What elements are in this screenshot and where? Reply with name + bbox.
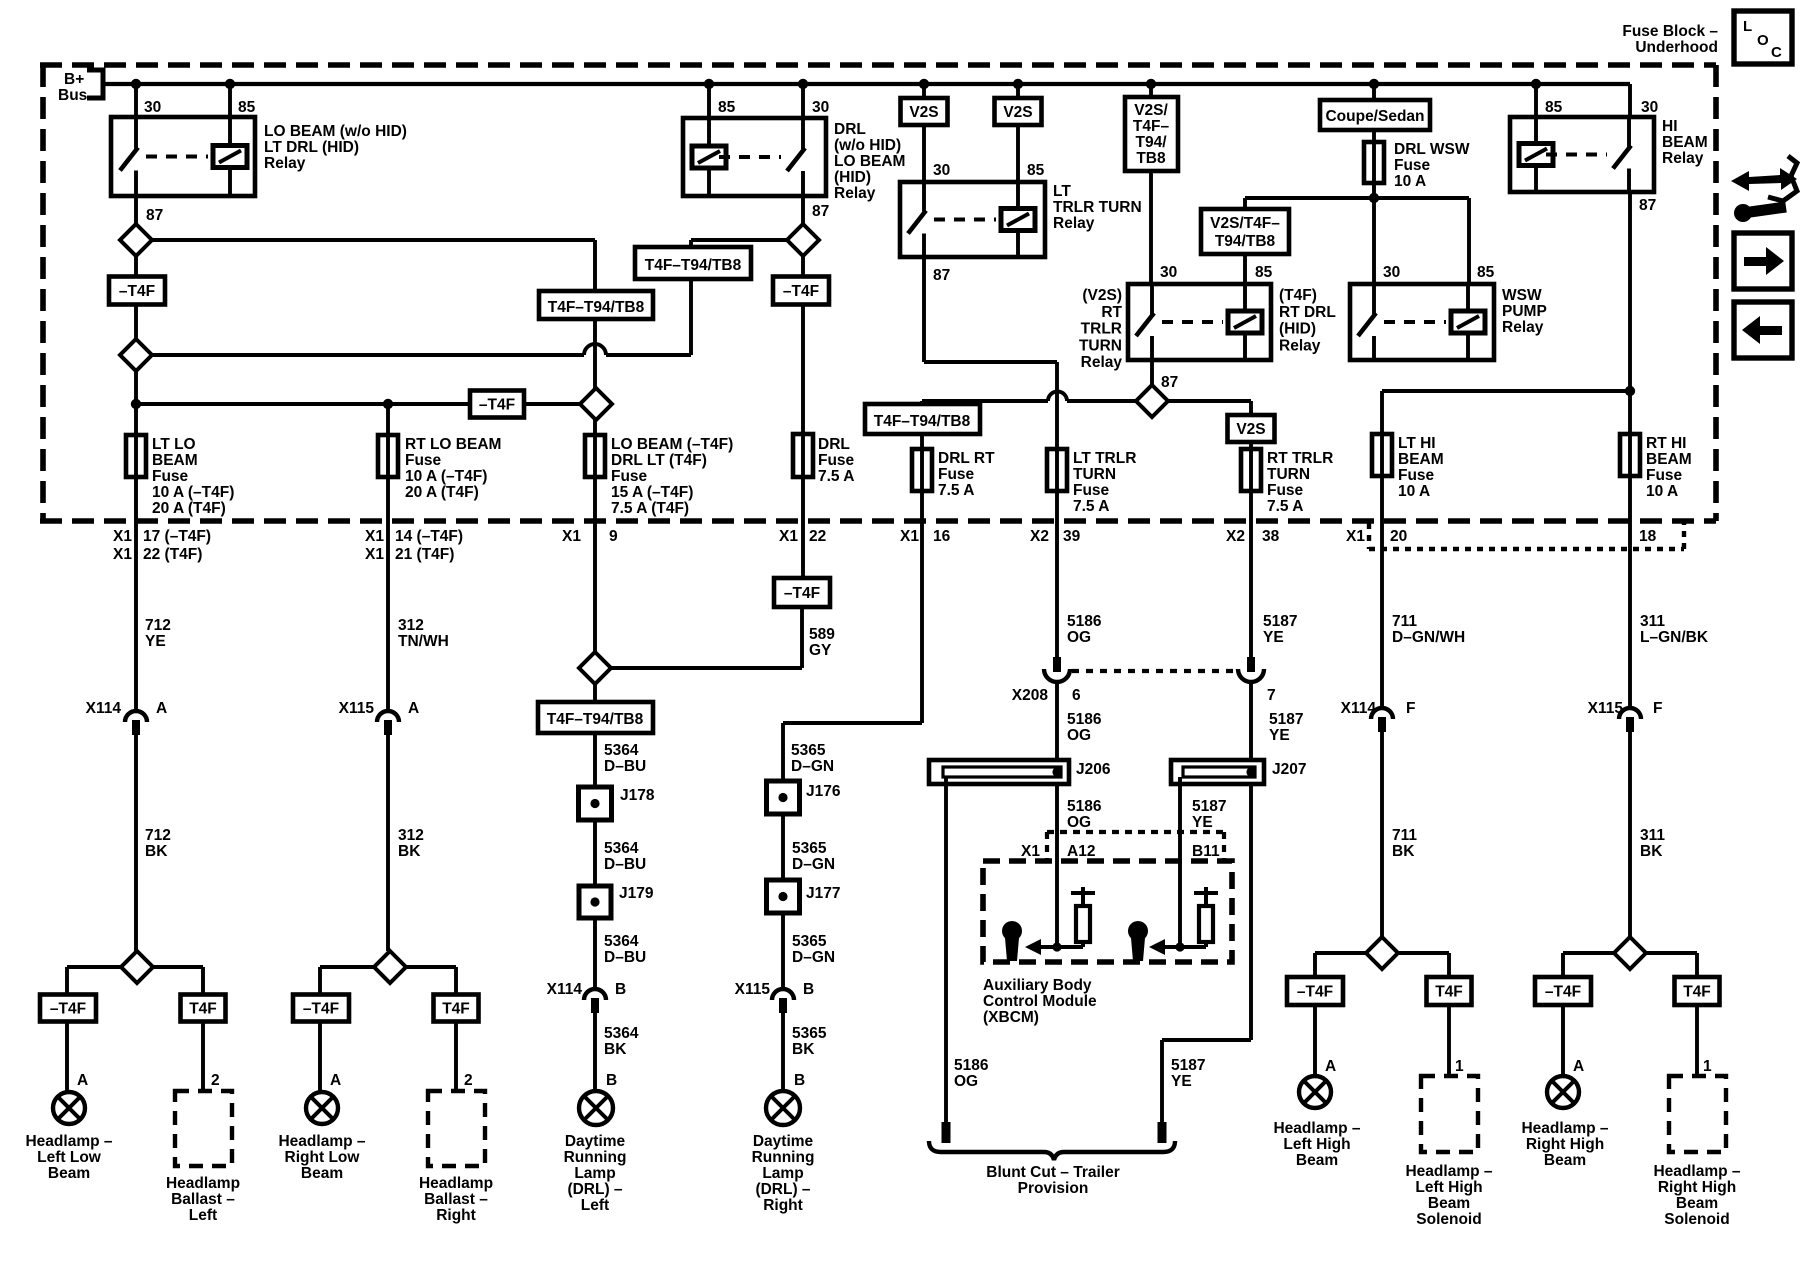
svg-text:Daytime: Daytime bbox=[753, 1133, 814, 1150]
svg-text:30: 30 bbox=[933, 162, 950, 179]
svg-text:30: 30 bbox=[812, 99, 829, 116]
svg-text:T4F–T94/TB8: T4F–T94/TB8 bbox=[548, 299, 645, 316]
wire 2-line box to K4 pin 85 bbox=[1243, 254, 1247, 284]
svg-text:Left: Left bbox=[581, 1197, 609, 1214]
svg-text:–T4F: –T4F bbox=[784, 585, 820, 602]
svg-text:311: 311 bbox=[1640, 613, 1665, 630]
wire fuse to connector X115-F bbox=[1628, 476, 1632, 707]
svg-text:2: 2 bbox=[464, 1072, 473, 1089]
K6 pin label 30 bbox=[1641, 99, 1658, 116]
B+ bus bracket bbox=[87, 70, 103, 98]
wire X208-6 to splice pack J206 bbox=[1055, 684, 1059, 760]
svg-text:–T4F: –T4F bbox=[119, 283, 155, 300]
svg-text:T4F–T94/TB8: T4F–T94/TB8 bbox=[874, 413, 971, 430]
junction XBCM left (1057,947) bbox=[1052, 942, 1061, 951]
svg-text:(DRL) –: (DRL) – bbox=[755, 1181, 810, 1198]
svg-text:5186: 5186 bbox=[1067, 613, 1102, 630]
svg-text:X1: X1 bbox=[900, 528, 919, 545]
svg-text:L: L bbox=[1743, 18, 1752, 35]
svg-text:Fuse: Fuse bbox=[938, 466, 975, 483]
wire label 712 BK bbox=[145, 827, 171, 860]
connector X115 pin F bbox=[1619, 708, 1641, 732]
RT TRLR TURN fuse label bbox=[1267, 450, 1333, 515]
headlamp right high beam solenoid (dashed box) bbox=[1669, 1076, 1726, 1152]
svg-text:PUMP: PUMP bbox=[1502, 303, 1547, 320]
wire S1 to -T4F box bbox=[134, 256, 138, 277]
wire K4 87 to splice diamond S3 bbox=[1150, 360, 1154, 385]
col7 pin labels X2 38 bbox=[1226, 528, 1280, 545]
wire label 5186 OG (2) bbox=[1067, 711, 1102, 744]
wire label 5364 D-BU (2) bbox=[604, 840, 646, 873]
svg-text:X208: X208 bbox=[1012, 687, 1049, 704]
wire label 5186 OG (3) bbox=[1067, 798, 1102, 831]
wire label 5365 D-GN (2) bbox=[792, 840, 835, 873]
B+ bus wire bbox=[103, 82, 1630, 86]
col1 left branch wire bbox=[67, 967, 121, 995]
wire bus to K6 pin 85 bbox=[1534, 84, 1538, 117]
svg-text:Control Module: Control Module bbox=[983, 993, 1097, 1010]
svg-text:Beam: Beam bbox=[1296, 1152, 1338, 1169]
pin label B col3 bbox=[606, 1072, 617, 1089]
wire bus to K1 pin 30 bbox=[134, 84, 138, 117]
K1 relay name bbox=[264, 123, 407, 172]
col4 pin labels X1 22 bbox=[779, 528, 826, 545]
svg-text:5364: 5364 bbox=[604, 933, 639, 950]
K6 relay name bbox=[1662, 118, 1708, 167]
pin label A col9 bbox=[1573, 1058, 1584, 1075]
svg-text:BEAM: BEAM bbox=[152, 452, 198, 469]
J178 label bbox=[620, 787, 655, 804]
svg-text:5364: 5364 bbox=[604, 840, 639, 857]
svg-text:5365: 5365 bbox=[791, 742, 826, 759]
svg-text:Fuse: Fuse bbox=[152, 468, 189, 485]
svg-text:Underhood: Underhood bbox=[1635, 39, 1718, 56]
wire S5 to LO BEAM fuse bbox=[593, 420, 597, 435]
X114-B labels bbox=[547, 981, 627, 998]
svg-text:712: 712 bbox=[145, 827, 171, 844]
col3 pin labels X1 9 bbox=[562, 528, 618, 545]
svg-text:87: 87 bbox=[933, 267, 950, 284]
wire to ballast left bbox=[201, 1021, 205, 1091]
wire fuse to connector X115-A bbox=[386, 477, 390, 710]
svg-text:D–GN: D–GN bbox=[792, 949, 835, 966]
wire to headlamp right low bbox=[318, 1021, 322, 1091]
fuse LO BEAM (-T4F) DRL LT (T4F) bbox=[585, 435, 605, 477]
wire label 5187 YE (1) bbox=[1263, 613, 1297, 646]
svg-text:Coupe/Sedan: Coupe/Sedan bbox=[1325, 108, 1424, 125]
wire J179 to connector X114-B bbox=[593, 918, 597, 988]
ground split diamond col8 bbox=[1366, 937, 1398, 969]
svg-text:311: 311 bbox=[1640, 827, 1665, 844]
svg-text:(T4F): (T4F) bbox=[1279, 287, 1317, 304]
svg-text:V2S: V2S bbox=[1236, 421, 1265, 438]
col2 pin labels X1 14/21 bbox=[365, 528, 463, 563]
svg-text:(V2S): (V2S) bbox=[1082, 287, 1122, 304]
fuse block label bbox=[1622, 23, 1718, 56]
svg-text:TURN: TURN bbox=[1079, 337, 1122, 354]
col9 pin label 18 bbox=[1639, 528, 1657, 545]
svg-text:LO BEAM: LO BEAM bbox=[834, 153, 905, 170]
splice diamond S5 bbox=[580, 388, 612, 420]
arrow-right icon box bbox=[1734, 233, 1792, 289]
wire to ballast right bbox=[454, 1021, 458, 1091]
svg-text:–T4F: –T4F bbox=[783, 283, 819, 300]
svg-text:Beam: Beam bbox=[301, 1165, 343, 1182]
X114-F labels bbox=[1341, 700, 1416, 717]
junction XBCM right (1180,947) bbox=[1175, 942, 1184, 951]
svg-text:Headlamp: Headlamp bbox=[419, 1175, 493, 1192]
wire node to LT TRLR TURN fuse (crosses y401 via hop) bbox=[1055, 362, 1059, 449]
svg-text:X114: X114 bbox=[1341, 700, 1377, 717]
wire J207 through to blunt cut bbox=[1162, 784, 1251, 1122]
wire fuse to connector X208-6 bbox=[1055, 491, 1059, 657]
svg-text:OG: OG bbox=[1067, 629, 1091, 646]
K2 pin label 87 bbox=[812, 203, 829, 220]
headlamp left low beam label bbox=[25, 1133, 112, 1182]
svg-text:A: A bbox=[77, 1072, 88, 1089]
wire fuse to connector X114-F bbox=[1380, 476, 1384, 707]
blunt cut terminal 5187 bbox=[1158, 1122, 1167, 1143]
XBCM lamp driver right (bulb icon) bbox=[1128, 921, 1148, 961]
svg-text:7.5 A: 7.5 A bbox=[938, 482, 974, 499]
svg-text:87: 87 bbox=[1161, 374, 1178, 391]
junction on bus at Coupe/Sedan fuse tap bbox=[1369, 79, 1379, 89]
pin label B col5 bbox=[794, 1072, 805, 1089]
svg-text:38: 38 bbox=[1262, 528, 1280, 545]
svg-text:30: 30 bbox=[144, 99, 161, 116]
svg-text:1: 1 bbox=[1455, 1058, 1464, 1075]
J207 label bbox=[1272, 761, 1306, 778]
pin label A col8 bbox=[1325, 1058, 1336, 1075]
svg-text:J207: J207 bbox=[1272, 761, 1306, 778]
fuse LT HI BEAM bbox=[1372, 434, 1392, 476]
T4F box col2 ballast bbox=[434, 995, 479, 1022]
wire J176 to J177 bbox=[781, 814, 785, 880]
svg-text:L–GN/BK: L–GN/BK bbox=[1640, 629, 1709, 646]
svg-text:30: 30 bbox=[1641, 99, 1658, 116]
svg-text:RT: RT bbox=[1101, 304, 1122, 321]
wire X114-F to ground split bbox=[1380, 732, 1384, 937]
wire label 5186 OG (1) bbox=[1067, 613, 1102, 646]
wire fuse to diamond S6 bbox=[593, 477, 597, 652]
svg-text:(DRL) –: (DRL) – bbox=[567, 1181, 622, 1198]
svg-text:DRL WSW: DRL WSW bbox=[1394, 141, 1470, 158]
wire -T4F down/left to diamond S6 bbox=[611, 607, 802, 668]
col6 pin labels X2 39 bbox=[1030, 528, 1081, 545]
svg-text:LT TRLR: LT TRLR bbox=[1073, 450, 1136, 467]
svg-text:Headlamp –: Headlamp – bbox=[278, 1133, 365, 1150]
svg-text:85: 85 bbox=[1255, 264, 1273, 281]
svg-text:X1: X1 bbox=[113, 546, 132, 563]
wire to headlamp right high bbox=[1561, 1005, 1565, 1076]
wire S2 to -T4F box col4 bbox=[801, 256, 805, 277]
RT HI BEAM fuse label bbox=[1646, 435, 1692, 500]
svg-text:OG: OG bbox=[954, 1073, 978, 1090]
DRL WSW fuse bbox=[1364, 130, 1384, 183]
junction on bus at V2S (K3 pin 30) bbox=[919, 79, 929, 89]
svg-text:7.5 A (T4F): 7.5 A (T4F) bbox=[611, 500, 689, 517]
K4 right name (T4F) RT DRL (HID) Relay bbox=[1279, 287, 1336, 354]
svg-text:Relay: Relay bbox=[1502, 319, 1544, 336]
svg-text:T4F–T94/TB8: T4F–T94/TB8 bbox=[547, 711, 644, 728]
DRL left label bbox=[564, 1133, 627, 1214]
svg-text:Solenoid: Solenoid bbox=[1416, 1211, 1481, 1228]
svg-text:T4F–: T4F– bbox=[1133, 118, 1170, 135]
splice diamond S4 bbox=[120, 339, 152, 371]
V2S box on K3 pin 30 feed bbox=[901, 84, 948, 125]
svg-text:16: 16 bbox=[933, 528, 951, 545]
LOC icon box bbox=[1734, 11, 1792, 64]
wire bus to K1 pin 85 bbox=[228, 84, 232, 117]
svg-text:Lamp: Lamp bbox=[574, 1165, 615, 1182]
svg-text:5364: 5364 bbox=[604, 1025, 639, 1042]
wire S6 down to T4F-T94/TB8 box bbox=[593, 684, 597, 702]
DRL right label bbox=[752, 1133, 815, 1214]
svg-text:DRL RT: DRL RT bbox=[938, 450, 995, 467]
svg-text:B: B bbox=[794, 1072, 805, 1089]
LO BEAM fuse label bbox=[611, 436, 733, 517]
wire DRL RT fuse down, corner to col5 lamp branch bbox=[783, 491, 922, 781]
col8 right branch wire bbox=[1398, 953, 1449, 977]
svg-text:BEAM: BEAM bbox=[1646, 451, 1692, 468]
connector X208 pin 7 bbox=[1238, 657, 1264, 682]
svg-text:7.5 A: 7.5 A bbox=[1267, 498, 1303, 515]
svg-text:7.5 A: 7.5 A bbox=[818, 468, 854, 485]
X115-F labels bbox=[1588, 700, 1663, 717]
svg-text:RT HI: RT HI bbox=[1646, 435, 1686, 452]
svg-text:RT DRL: RT DRL bbox=[1279, 304, 1336, 321]
svg-text:5365: 5365 bbox=[792, 933, 827, 950]
headlamp left high beam label bbox=[1273, 1120, 1360, 1169]
svg-text:D–GN: D–GN bbox=[792, 856, 835, 873]
K5 pin label 30 bbox=[1383, 264, 1400, 281]
svg-text:Fuse: Fuse bbox=[1073, 482, 1110, 499]
T4F-T94/TB8 box col4 upper bbox=[635, 247, 751, 279]
svg-text:BK: BK bbox=[604, 1041, 627, 1058]
headlamp ballast right (dashed box) bbox=[428, 1091, 485, 1166]
col9 left branch wire bbox=[1563, 953, 1614, 977]
svg-text:LT HI: LT HI bbox=[1398, 435, 1436, 452]
wire -T4F to splice diamond S4 bbox=[134, 304, 138, 339]
svg-text:F: F bbox=[1653, 700, 1662, 717]
svg-text:Ballast –: Ballast – bbox=[424, 1191, 488, 1208]
-T4F box col4 upper bbox=[773, 277, 829, 305]
svg-text:WSW: WSW bbox=[1502, 287, 1542, 304]
svg-text:5186: 5186 bbox=[1067, 798, 1102, 815]
horizontal wire y404 from diamond S5 to col1 bbox=[136, 402, 581, 406]
svg-text:LO BEAM (–T4F): LO BEAM (–T4F) bbox=[611, 436, 733, 453]
svg-text:5364: 5364 bbox=[604, 742, 639, 759]
svg-text:BK: BK bbox=[792, 1041, 815, 1058]
splice diamond S3 bbox=[1136, 385, 1168, 417]
svg-text:9: 9 bbox=[609, 528, 618, 545]
svg-text:Fuse: Fuse bbox=[611, 468, 648, 485]
fuse RT TRLR TURN bbox=[1241, 449, 1261, 491]
T4F box col8 bbox=[1427, 977, 1472, 1005]
-T4F box col1 lamp bbox=[40, 995, 96, 1022]
wire label 5187 YE (2) bbox=[1269, 711, 1303, 744]
K3 pin label 30 bbox=[933, 162, 950, 179]
wire label 711 D-GN/WH bbox=[1392, 613, 1465, 646]
svg-text:–T4F: –T4F bbox=[303, 1001, 339, 1018]
fuse LT LO BEAM bbox=[126, 435, 146, 477]
wire junction left to LT HI BEAM fuse bbox=[1382, 391, 1630, 434]
svg-text:Beam: Beam bbox=[48, 1165, 90, 1182]
relay K4: RT TRLR TURN / RT DRL (HID) Relay bbox=[1128, 284, 1271, 360]
svg-text:Blunt Cut – Trailer: Blunt Cut – Trailer bbox=[986, 1164, 1120, 1181]
-T4F box col8 bbox=[1287, 977, 1343, 1005]
wire label 589 GY bbox=[809, 626, 835, 659]
svg-text:5187: 5187 bbox=[1192, 798, 1226, 815]
connector X114 pin A bbox=[125, 711, 147, 735]
svg-text:30: 30 bbox=[1383, 264, 1400, 281]
svg-text:85: 85 bbox=[718, 99, 736, 116]
J176 label bbox=[806, 783, 841, 800]
svg-text:(XBCM): (XBCM) bbox=[983, 1009, 1039, 1026]
K4 left name (V2S) RT TRLR TURN Relay bbox=[1079, 287, 1123, 371]
svg-text:5365: 5365 bbox=[792, 1025, 827, 1042]
svg-text:20: 20 bbox=[1390, 528, 1407, 545]
svg-text:Beam: Beam bbox=[1544, 1152, 1586, 1169]
svg-text:X114: X114 bbox=[86, 700, 122, 717]
svg-text:10 A (–T4F): 10 A (–T4F) bbox=[405, 468, 487, 485]
connector X208 pin 6 bbox=[1044, 657, 1070, 682]
wire X115-F to ground split bbox=[1628, 732, 1632, 937]
svg-text:10 A (–T4F): 10 A (–T4F) bbox=[152, 484, 234, 501]
svg-text:TN/WH: TN/WH bbox=[398, 633, 449, 650]
svg-text:–T4F: –T4F bbox=[479, 397, 515, 414]
LT TRLR TURN fuse label bbox=[1073, 450, 1136, 515]
svg-text:V2S: V2S bbox=[1003, 104, 1032, 121]
svg-text:Relay: Relay bbox=[1662, 150, 1704, 167]
-T4F box col9 bbox=[1535, 977, 1591, 1005]
X208-6 labels bbox=[1012, 687, 1081, 704]
blunt cut brace bbox=[929, 1141, 1175, 1160]
ground split diamond col2 bbox=[374, 951, 406, 983]
lamp: Headlamp - Right High Beam bbox=[1547, 1076, 1579, 1108]
svg-text:Fuse: Fuse bbox=[405, 452, 442, 469]
connector X1 dotted sub-boundary (pins 20/18) bbox=[1369, 523, 1684, 549]
wire label 5365 BK bbox=[792, 1025, 827, 1058]
col2 left branch wire bbox=[320, 967, 374, 995]
wire X114 to ground split bbox=[134, 735, 138, 951]
svg-text:X115: X115 bbox=[735, 981, 771, 998]
splice J178 bbox=[579, 787, 612, 820]
svg-text:X1: X1 bbox=[562, 528, 581, 545]
wire X115-B to DRL right lamp bbox=[781, 1013, 785, 1092]
wire label 5365 D-GN (3) bbox=[792, 933, 835, 966]
svg-text:–T4F: –T4F bbox=[1297, 984, 1333, 1001]
relay K3: LT TRLR TURN Relay bbox=[900, 182, 1045, 257]
wire X208-7 to splice pack J207 bbox=[1249, 684, 1253, 760]
svg-text:Fuse Block –: Fuse Block – bbox=[1622, 23, 1718, 40]
svg-text:BK: BK bbox=[398, 843, 421, 860]
junction on bus at V2S/T4F-T94/TB8 (K4 pin 30) bbox=[1146, 79, 1156, 89]
svg-text:10 A: 10 A bbox=[1394, 173, 1426, 190]
svg-text:V2S/T4F–: V2S/T4F– bbox=[1210, 215, 1280, 232]
svg-text:X1: X1 bbox=[113, 528, 132, 545]
X208 dotted boundary bbox=[1072, 669, 1237, 673]
svg-text:87: 87 bbox=[812, 203, 829, 220]
K5 relay name bbox=[1502, 287, 1547, 336]
svg-text:YE: YE bbox=[145, 633, 166, 650]
relay K1: LO BEAM (w/o HID) LT DRL (HID) Relay bbox=[111, 117, 255, 196]
X208-7 label bbox=[1267, 687, 1276, 704]
K1 pin label 30 bbox=[144, 99, 161, 116]
XBCM arrow to bulb right bbox=[1149, 939, 1180, 955]
fuse LT TRLR TURN bbox=[1047, 449, 1067, 491]
svg-text:85: 85 bbox=[1545, 99, 1563, 116]
junction on bus at V2S (K3 pin 85) bbox=[1013, 79, 1023, 89]
K2 relay name bbox=[834, 121, 905, 202]
wire label 311 BK bbox=[1640, 827, 1665, 860]
headlamp ballast right label bbox=[419, 1175, 493, 1224]
svg-text:YE: YE bbox=[1171, 1073, 1192, 1090]
svg-text:T4F: T4F bbox=[1683, 984, 1711, 1001]
svg-text:DRL LT (T4F): DRL LT (T4F) bbox=[611, 452, 707, 469]
svg-text:Left High: Left High bbox=[1415, 1179, 1482, 1196]
svg-text:T4F–T94/TB8: T4F–T94/TB8 bbox=[645, 257, 742, 274]
svg-text:Fuse: Fuse bbox=[1267, 482, 1304, 499]
junction on bus at relay K1 pin 30 bbox=[131, 79, 141, 89]
svg-text:712: 712 bbox=[145, 617, 171, 634]
pin label A col2 bbox=[330, 1072, 341, 1089]
-T4F box on y404 bbox=[470, 391, 524, 418]
wire label 5365 D-GN (1) bbox=[791, 742, 834, 775]
splice J176 bbox=[767, 781, 800, 814]
svg-text:Right High: Right High bbox=[1658, 1179, 1736, 1196]
svg-text:O: O bbox=[1757, 32, 1769, 49]
wire label 311 L-GN/BK bbox=[1640, 613, 1709, 646]
svg-text:LO BEAM (w/o HID): LO BEAM (w/o HID) bbox=[264, 123, 407, 140]
svg-text:Relay: Relay bbox=[1081, 354, 1123, 371]
svg-text:J177: J177 bbox=[806, 885, 840, 902]
pin label 1 col9 bbox=[1703, 1058, 1712, 1075]
wire X114-B to DRL lamp bbox=[593, 1013, 597, 1092]
svg-text:DRL: DRL bbox=[834, 121, 866, 138]
junction col2 (388,404) bbox=[383, 399, 393, 409]
svg-text:A: A bbox=[1325, 1058, 1336, 1075]
blunt cut terminal 5186 bbox=[942, 1122, 951, 1143]
col8 left branch wire bbox=[1315, 953, 1366, 977]
K4 pin label 30 bbox=[1160, 264, 1177, 281]
svg-text:A12: A12 bbox=[1067, 843, 1095, 860]
svg-text:Headlamp –: Headlamp – bbox=[1653, 1163, 1740, 1180]
headlamp right low beam label bbox=[278, 1133, 365, 1182]
svg-text:17 (–T4F): 17 (–T4F) bbox=[143, 528, 211, 545]
J177 label bbox=[806, 885, 840, 902]
svg-text:A: A bbox=[1573, 1058, 1584, 1075]
wire box down and left to S4 (hop over col3) bbox=[152, 279, 691, 355]
lamp: Headlamp - Left High Beam bbox=[1299, 1076, 1331, 1108]
svg-text:BEAM: BEAM bbox=[1398, 451, 1444, 468]
svg-text:A: A bbox=[156, 700, 167, 717]
wire bus to K2 pin 30 bbox=[801, 84, 805, 118]
svg-text:Left High: Left High bbox=[1283, 1136, 1350, 1153]
svg-text:589: 589 bbox=[809, 626, 835, 643]
svg-text:X115: X115 bbox=[339, 700, 375, 717]
svg-text:Headlamp –: Headlamp – bbox=[1273, 1120, 1360, 1137]
wire label 712 YE bbox=[145, 617, 171, 650]
svg-text:7: 7 bbox=[1267, 687, 1276, 704]
wire fuse to connector X114-A bbox=[134, 477, 138, 710]
svg-text:10 A: 10 A bbox=[1646, 483, 1678, 500]
lamp: Daytime Running Lamp (DRL) - Right bbox=[766, 1091, 800, 1125]
lamp: Headlamp - Right Low Beam bbox=[306, 1092, 338, 1124]
svg-text:X1: X1 bbox=[1021, 843, 1040, 860]
wire V2S to K3 pin 30 bbox=[922, 125, 926, 182]
svg-text:87: 87 bbox=[1639, 197, 1656, 214]
